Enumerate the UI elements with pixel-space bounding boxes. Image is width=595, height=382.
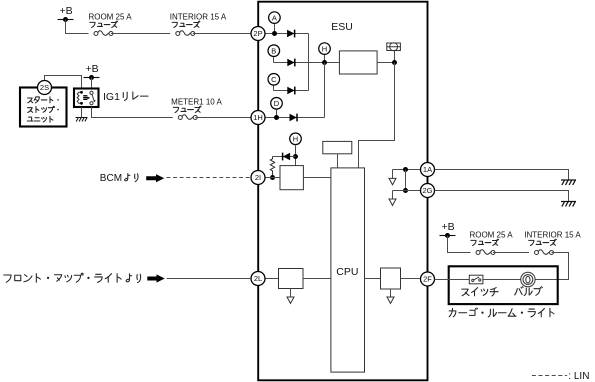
svg-text:B: B bbox=[271, 46, 276, 55]
label front-map-light-yori bbox=[4, 273, 141, 282]
svg-text:2L: 2L bbox=[254, 274, 262, 283]
wire +B to relay switch bbox=[91, 78, 93, 89]
label bcm-yori bbox=[125, 174, 138, 182]
label fuse2-kana bbox=[172, 21, 200, 28]
label switch-label bbox=[462, 288, 498, 296]
cargo room light box bbox=[449, 266, 558, 304]
wire bus vertical A-C bbox=[308, 34, 310, 91]
wire U5 ground stub bbox=[390, 289, 392, 297]
svg-text:INTERIOR 15 A: INTERIOR 15 A bbox=[170, 13, 227, 22]
block U2 above CPU bbox=[323, 141, 352, 153]
wire U4 ground stub bbox=[290, 289, 292, 298]
svg-text:BCM: BCM bbox=[100, 173, 122, 184]
wire 2G internal bbox=[393, 191, 421, 200]
wire U3 to CPU bbox=[303, 177, 331, 179]
svg-text:1A: 1A bbox=[423, 165, 432, 174]
pin circle B bbox=[268, 45, 280, 57]
pin circle A bbox=[269, 12, 281, 24]
svg-text:C: C bbox=[271, 75, 277, 84]
wire 2L row bbox=[265, 278, 279, 280]
chassis ground 2G bbox=[561, 202, 576, 207]
node dot under A bbox=[272, 31, 277, 36]
node dot under D bbox=[274, 115, 279, 120]
node dot buzzer bbox=[392, 60, 397, 65]
svg-text:2I: 2I bbox=[255, 173, 261, 182]
wire +B to ROOM fuse bbox=[66, 20, 89, 34]
switch S1 bbox=[469, 275, 483, 284]
internal ground triangle 2G bbox=[389, 199, 396, 205]
wire 2G to chassis ground bbox=[435, 191, 569, 202]
svg-text:2F: 2F bbox=[423, 275, 432, 284]
wire 2F to switch bbox=[435, 279, 470, 281]
battery +B top-left bbox=[58, 5, 74, 22]
block U3 driver bbox=[280, 166, 303, 190]
ESU unit box bbox=[258, 2, 427, 381]
CPU block bbox=[331, 168, 365, 372]
fuse ROOM 25 A (cargo) bbox=[476, 250, 495, 255]
fuse INTERIOR 15 A (cargo) bbox=[535, 250, 554, 255]
arrow BCM bbox=[146, 174, 164, 182]
wire link 1A-2G bbox=[405, 170, 407, 191]
diode A-row bbox=[287, 30, 295, 38]
internal ground triangle U4 bbox=[287, 297, 294, 303]
wire METER1 fuse to pin 1H bbox=[195, 117, 251, 119]
connector 2F bbox=[421, 272, 435, 286]
LIN legend dashed sample bbox=[532, 375, 567, 377]
label fuse5-kana bbox=[529, 239, 557, 246]
resistor R1 bbox=[270, 157, 274, 178]
wire 1A to chassis ground bbox=[435, 170, 569, 181]
connector 1A bbox=[421, 163, 435, 177]
wire block to buzzer node bbox=[377, 51, 394, 63]
wire 2P row bbox=[265, 23, 309, 33]
svg-text:ESU: ESU bbox=[331, 21, 353, 33]
diode to H (left pointing) bbox=[283, 153, 291, 161]
wire U2 to CPU bbox=[337, 154, 339, 168]
wire fuse to fuse (cargo) bbox=[493, 252, 529, 254]
svg-text:A: A bbox=[272, 13, 277, 22]
label fuse1-kana bbox=[90, 21, 118, 28]
wire buzzer node to CPU top bbox=[359, 63, 395, 168]
diode B-row bbox=[287, 59, 295, 67]
wire C row bbox=[274, 85, 309, 90]
wire diode branch bbox=[273, 156, 296, 158]
connector 1H bbox=[251, 111, 265, 125]
arrow front map light bbox=[147, 274, 164, 282]
label start-line3 bbox=[27, 116, 52, 122]
connector 2L bbox=[251, 272, 265, 286]
wire 2I row bbox=[265, 177, 280, 179]
pin circle C bbox=[268, 74, 280, 86]
node dot H lower bbox=[293, 154, 298, 159]
svg-text:METER1 10 A: METER1 10 A bbox=[171, 97, 222, 106]
label ig1-relay-kana bbox=[123, 92, 148, 100]
diode C-row bbox=[287, 87, 295, 95]
relay coil bbox=[77, 92, 81, 103]
wire switch to bulb bbox=[483, 279, 521, 281]
battery +B cargo bbox=[440, 221, 456, 238]
fuse INTERIOR 15 A (left) bbox=[176, 31, 195, 36]
label fuse3-kana bbox=[173, 106, 201, 113]
fuse METER1 10 A bbox=[178, 115, 197, 120]
svg-text:D: D bbox=[274, 99, 280, 108]
svg-text:H: H bbox=[322, 44, 327, 53]
pin circle D bbox=[271, 98, 283, 110]
relay contact switch bbox=[90, 91, 93, 94]
fuse ROOM 25 A (left) bbox=[94, 31, 113, 36]
block U5 output driver bbox=[381, 268, 401, 289]
wire 2S loop to IG1 relay coil bbox=[45, 76, 82, 89]
internal ground triangle 1A bbox=[389, 178, 396, 184]
svg-text:INTERIOR 15 A: INTERIOR 15 A bbox=[524, 230, 581, 239]
wire U5 to 2F bbox=[401, 278, 421, 280]
wire CPU to U5 bbox=[365, 278, 381, 280]
diode D-row bbox=[290, 114, 298, 122]
connector 2P bbox=[251, 27, 265, 41]
wire H to node bbox=[295, 145, 297, 166]
wire front map light to 2L bbox=[167, 278, 251, 280]
wire B row bbox=[274, 54, 340, 62]
node dot 1A link bbox=[403, 167, 408, 172]
connector 2I bbox=[251, 171, 265, 185]
block U4 input buffer bbox=[279, 269, 304, 289]
pin circle H lower bbox=[290, 133, 302, 145]
connector 2G bbox=[421, 184, 435, 198]
wire U4 to CPU bbox=[303, 278, 331, 280]
start-stop unit box bbox=[20, 88, 67, 127]
svg-text:CPU: CPU bbox=[336, 266, 358, 278]
dashed wire BCM to 2I (LIN) bbox=[167, 177, 252, 179]
svg-text:2G: 2G bbox=[422, 186, 432, 195]
ground relay coil bbox=[81, 107, 83, 118]
svg-text:IG1: IG1 bbox=[103, 91, 120, 103]
wire 1H row bbox=[265, 63, 325, 118]
wire INTERIOR fuse to pin 2P bbox=[193, 33, 251, 35]
connector 2S bbox=[38, 81, 52, 95]
node dot 2I bbox=[270, 175, 275, 180]
svg-text:: LIN: : LIN bbox=[568, 371, 589, 382]
node dot 2G link bbox=[403, 188, 408, 193]
wire fuse to bulb feed bbox=[535, 253, 568, 280]
label start-line1 bbox=[28, 97, 59, 103]
pin circle H top bbox=[319, 43, 331, 55]
node dot H junction bbox=[322, 60, 327, 65]
relay IG1 box bbox=[74, 89, 99, 108]
label fuse4-kana bbox=[471, 239, 499, 246]
block U1 bbox=[339, 51, 377, 74]
svg-text:2S: 2S bbox=[40, 83, 49, 92]
svg-text:H: H bbox=[293, 135, 298, 144]
label bulb-label bbox=[515, 287, 543, 296]
svg-text:ROOM 25 A: ROOM 25 A bbox=[88, 13, 132, 22]
wire ROOM fuse to INTERIOR fuse bbox=[111, 33, 170, 35]
chassis ground 1A bbox=[561, 180, 576, 185]
wire +B to ROOM fuse (cargo) bbox=[448, 236, 471, 253]
battery +B relay bbox=[84, 63, 100, 80]
label cargo-room-light-label bbox=[449, 308, 554, 317]
svg-text:ROOM 25 A: ROOM 25 A bbox=[469, 230, 513, 239]
svg-text:1H: 1H bbox=[253, 113, 263, 122]
buzzer bbox=[387, 43, 401, 51]
wire 1A internal bbox=[393, 170, 421, 179]
internal ground triangle U5 bbox=[387, 297, 394, 303]
wire relay to METER1 fuse bbox=[92, 107, 173, 118]
bulb L1 bbox=[521, 272, 535, 286]
svg-text:2P: 2P bbox=[253, 29, 262, 38]
label start-line2 bbox=[28, 106, 59, 112]
